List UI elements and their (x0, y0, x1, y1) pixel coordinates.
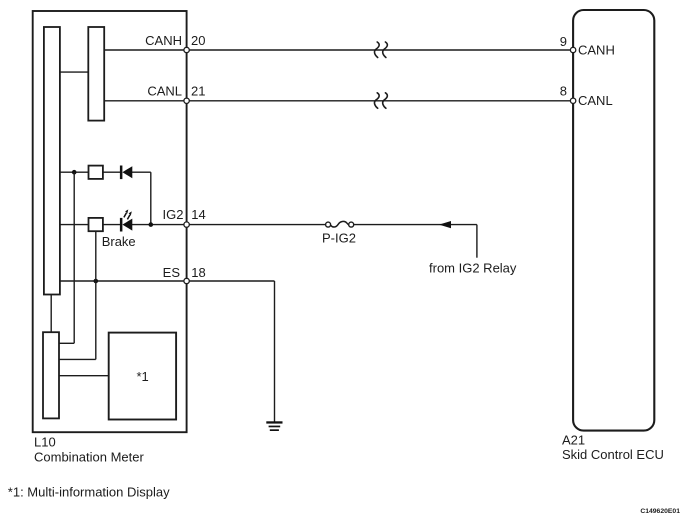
terminal 14 (184, 222, 189, 227)
skid control ECU A21 outline (573, 10, 654, 431)
svg-text:9: 9 (560, 34, 567, 49)
svg-text:CANH: CANH (578, 43, 615, 58)
svg-text:ES: ES (163, 265, 181, 280)
wire CANH (104, 49, 573, 51)
pin 8 (560, 84, 567, 99)
svg-text:Brake: Brake (102, 234, 136, 249)
label from IG2 Relay (429, 261, 517, 276)
connector bar B1 (tall left) (44, 27, 60, 295)
terminal 20 (184, 47, 189, 52)
svg-text:P-IG2: P-IG2 (322, 231, 356, 246)
indicator square S1 (89, 166, 103, 179)
svg-text:A21: A21 (562, 433, 585, 448)
label *1 (137, 369, 149, 384)
label CANH (meter side) (145, 33, 182, 48)
label Brake (102, 234, 136, 249)
label L10 (34, 435, 56, 450)
pin 14 (191, 207, 205, 222)
wire bar1 to lower bar (50, 295, 52, 333)
LED D2 (brake lamp) (120, 218, 132, 232)
terminal 9 (570, 47, 575, 52)
wire vertical B (brake square to lower bar) (59, 231, 96, 359)
svg-text:18: 18 (191, 265, 205, 280)
diode D1 (120, 166, 132, 180)
svg-text:Combination Meter: Combination Meter (34, 450, 144, 465)
junction dot ES/vertical B (94, 279, 99, 284)
connector bar B2 (top) (88, 27, 104, 121)
terminal 21 (184, 98, 189, 103)
ground symbol (266, 421, 282, 431)
junction dot row1/vertical A (72, 170, 77, 175)
wire CANL (104, 100, 573, 102)
connector bar B1 lower (43, 332, 59, 418)
wire lower bar to display box (59, 375, 109, 377)
figure code C149620E01 (640, 508, 680, 515)
label Skid Control ECU (562, 447, 664, 462)
terminal 8 (570, 98, 575, 103)
pin 20 (191, 33, 205, 48)
wire brake row (IG2) (60, 225, 477, 258)
wire bar1-bar2 H link (60, 71, 88, 73)
svg-text:14: 14 (191, 207, 205, 222)
pin 18 (191, 265, 205, 280)
multi-information display box *1 (109, 333, 176, 420)
break symbol CANL (374, 93, 387, 109)
break symbol CANH (374, 42, 387, 58)
svg-text:CANH: CANH (145, 33, 182, 48)
svg-text:*1: *1 (137, 369, 149, 384)
arrow from IG2 relay (439, 221, 451, 228)
note *1: Multi-information Display (8, 485, 170, 500)
fuse P-IG2 (326, 221, 354, 227)
label CANL (meter side) (147, 84, 182, 99)
svg-text:CANL: CANL (578, 93, 613, 108)
brake lamp square S2 (89, 218, 103, 231)
svg-text:L10: L10 (34, 435, 56, 450)
label Combination Meter (34, 450, 144, 465)
terminal 18 (184, 278, 189, 283)
svg-text:21: 21 (191, 84, 205, 99)
svg-text:20: 20 (191, 33, 205, 48)
svg-text:C149620E01: C149620E01 (640, 508, 680, 515)
svg-text:8: 8 (560, 84, 567, 99)
pin 21 (191, 84, 205, 99)
svg-text:CANL: CANL (147, 84, 182, 99)
combination meter L10 outline (33, 11, 187, 432)
svg-text:Skid Control ECU: Skid Control ECU (562, 447, 664, 462)
pin 9 (560, 34, 567, 49)
label CANH (ECU side) (578, 43, 615, 58)
svg-text:from IG2 Relay: from IG2 Relay (429, 261, 517, 276)
svg-text:IG2: IG2 (163, 207, 184, 222)
label ES (163, 265, 181, 280)
wire lamp row 1 (60, 172, 151, 224)
label P-IG2 (322, 231, 356, 246)
junction dot IG2/diode corner (149, 222, 154, 227)
LED light arrows (124, 209, 132, 219)
wire ES (60, 281, 275, 422)
label CANL (ECU side) (578, 93, 613, 108)
label IG2 (163, 207, 184, 222)
wire vertical A (row1 to lower bar) (59, 172, 74, 343)
label A21 (562, 433, 585, 448)
svg-text:*1: Multi-information Display: *1: Multi-information Display (8, 485, 170, 500)
